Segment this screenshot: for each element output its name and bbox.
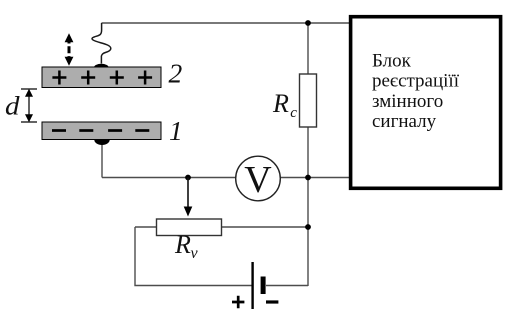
svg-text:реєстраціїї: реєстраціїї xyxy=(372,71,460,92)
svg-text:V: V xyxy=(244,159,272,201)
svg-text:сигналу: сигналу xyxy=(372,111,437,132)
svg-text:d: d xyxy=(5,91,21,120)
svg-text:змінного: змінного xyxy=(372,91,443,112)
svg-text:R: R xyxy=(272,89,289,118)
svg-text:c: c xyxy=(290,105,297,121)
svg-text:R: R xyxy=(174,230,191,259)
svg-text:1: 1 xyxy=(169,115,183,146)
svg-text:v: v xyxy=(191,245,199,262)
svg-text:2: 2 xyxy=(169,58,183,89)
svg-text:Блок: Блок xyxy=(372,51,412,72)
